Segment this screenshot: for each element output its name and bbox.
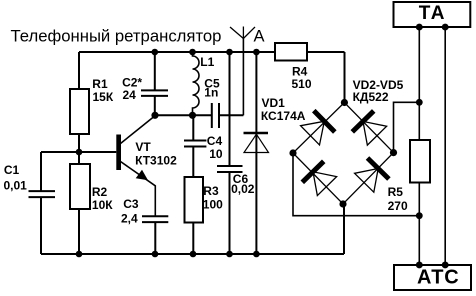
svg-text:0,01: 0,01 — [4, 179, 28, 193]
svg-text:1n: 1n — [204, 86, 218, 100]
svg-text:L1: L1 — [200, 55, 214, 69]
wire bridge left to R5 bottom — [293, 153, 419, 216]
svg-text:510: 510 — [292, 77, 312, 91]
junction L1 top — [189, 49, 196, 56]
resistor R5 — [410, 140, 430, 183]
capacitor C3 — [142, 216, 168, 254]
resistor R3 — [185, 177, 204, 223]
capacitor C1 — [29, 152, 56, 254]
svg-text:10: 10 — [209, 147, 223, 161]
capacitor C5 — [193, 103, 244, 128]
wire bottom rail — [41, 204, 344, 254]
svg-text:КТ3102: КТ3102 — [135, 154, 177, 168]
junction rail x230 — [226, 49, 233, 56]
wire A branch to C6 — [229, 52, 231, 166]
junction R5 top node — [416, 99, 423, 106]
wire bridge right to TA lead — [394, 102, 420, 152]
capacitor C2 — [141, 52, 168, 115]
svg-text:R3: R3 — [203, 184, 219, 198]
wire collector to L1 node — [155, 114, 193, 116]
inductor L1 — [193, 52, 200, 115]
wire TA right lead — [444, 27, 446, 265]
junction bottom rail dots — [76, 251, 83, 258]
svg-text:VD1: VD1 — [262, 96, 286, 110]
wire R1 branch — [78, 52, 80, 254]
svg-text:КД522: КД522 — [353, 90, 389, 104]
svg-text:Телефонный ретранслятор: Телефонный ретранслятор — [11, 27, 222, 46]
junction C2 top — [152, 49, 159, 56]
diode VD2 top-left — [300, 111, 335, 146]
junction ATC leads — [416, 262, 423, 269]
junction L1 bottom node — [189, 112, 196, 119]
wire bridge edges — [293, 103, 394, 205]
svg-text:А: А — [254, 28, 265, 46]
svg-text:R1: R1 — [92, 77, 108, 91]
svg-text:КС174А: КС174А — [261, 109, 306, 123]
diode VD3 top-right — [352, 111, 387, 146]
svg-text:ТА: ТА — [419, 3, 446, 24]
svg-text:R2: R2 — [92, 185, 108, 199]
junction bridge left — [289, 149, 296, 156]
resistor R4 — [275, 43, 307, 61]
svg-text:C1: C1 — [4, 163, 20, 177]
svg-text:0,02: 0,02 — [231, 182, 255, 196]
junction collector node — [151, 112, 158, 119]
resistor R2 — [70, 164, 90, 209]
node base junction — [76, 149, 83, 156]
wire top rail — [79, 52, 345, 103]
junction rail VD1 — [253, 49, 260, 56]
wire base node horizontal — [41, 151, 116, 153]
diode VD4 bottom-left — [302, 161, 337, 196]
capacitor C4 — [184, 115, 206, 177]
svg-text:2,4: 2,4 — [121, 212, 138, 226]
svg-text:100: 100 — [203, 198, 223, 212]
svg-text:10К: 10К — [92, 198, 113, 212]
redraw ATC lead dots above box fill — [416, 262, 423, 269]
svg-text:15К: 15К — [93, 90, 114, 104]
junction TA leads — [416, 24, 423, 31]
svg-text:24: 24 — [123, 88, 137, 102]
transistor VT КТ3102 — [116, 116, 155, 216]
svg-text:R5: R5 — [388, 185, 404, 199]
svg-text:АТС: АТС — [417, 267, 460, 289]
wire antenna stem — [242, 39, 244, 116]
box TA — [394, 2, 471, 27]
diode VD5 bottom-right — [353, 158, 388, 193]
junction bridge bottom — [339, 200, 346, 207]
redraw TA lead dots above box fill — [416, 24, 423, 31]
resistor R1 — [70, 89, 89, 134]
capacitor C6 — [217, 166, 243, 254]
junction bridge top — [341, 99, 348, 106]
box ATC — [394, 265, 471, 290]
junction R5 bottom node — [416, 212, 423, 219]
wire TA left lead — [418, 27, 420, 265]
zener VD1 КС174А — [244, 52, 269, 254]
svg-text:270: 270 — [388, 199, 408, 213]
svg-text:VT: VT — [135, 140, 151, 154]
junction bridge right — [390, 149, 397, 156]
svg-text:C3: C3 — [123, 197, 139, 211]
antenna — [230, 27, 255, 39]
